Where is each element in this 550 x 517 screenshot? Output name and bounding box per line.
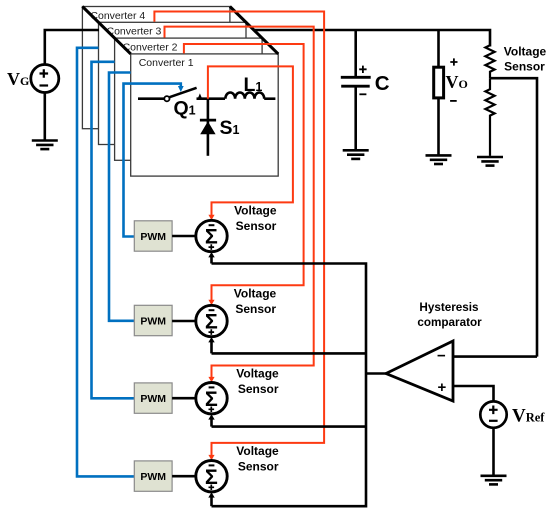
svg-text:Voltage: Voltage <box>234 286 277 300</box>
svg-text:Voltage: Voltage <box>504 45 547 59</box>
load VO wire top <box>437 30 440 67</box>
sense tap wire to comparator minus <box>490 78 537 356</box>
source VG <box>7 65 59 93</box>
wire PWM4 to summer4 <box>172 475 195 478</box>
feedback stub arrow summer 1 <box>210 255 213 264</box>
switch Q1 contact <box>164 96 169 101</box>
ground VRef <box>481 476 507 485</box>
ground divider <box>477 157 503 166</box>
svg-text:−: − <box>437 348 446 365</box>
red wire converter 2 to summer 2 <box>184 44 304 301</box>
PWM block 3 <box>134 383 172 413</box>
svg-text:Voltage: Voltage <box>236 367 279 381</box>
PWM block 2 <box>134 305 172 335</box>
svg-text:Converter 1: Converter 1 <box>139 57 194 69</box>
svg-text:Sensor: Sensor <box>236 219 277 233</box>
svg-text:+: + <box>438 379 447 396</box>
svg-text:PWM: PWM <box>140 471 166 483</box>
svg-text:PWM: PWM <box>140 231 166 243</box>
red wire converter 4 to summer 4 <box>154 12 324 457</box>
feedback stub arrow summer 4 <box>210 495 213 506</box>
svg-text:C: C <box>375 72 390 95</box>
converter box 1 <box>131 54 279 176</box>
red wire converter 1 to summer 1 <box>208 66 293 216</box>
PWM block 4 <box>134 461 172 491</box>
svg-text:Converter 3: Converter 3 <box>107 26 162 38</box>
switch arrow on wire <box>198 93 202 98</box>
wire switch to inductor <box>197 97 226 100</box>
stack diagonal left <box>82 7 130 54</box>
blue wire PWM2 to converter 2 <box>109 73 134 321</box>
converter box 3 <box>99 22 247 144</box>
hysteresis comparator U5 <box>386 341 453 401</box>
wire VG bottom <box>43 93 46 141</box>
wire main top bus right of boxes <box>254 30 490 47</box>
svg-text:Sensor: Sensor <box>238 460 279 474</box>
switch Q1 blade <box>170 88 197 97</box>
svg-text:PWM: PWM <box>140 393 166 405</box>
blue wire PWM3 to converter 3 <box>92 62 135 399</box>
capacitor wire bottom <box>354 88 357 151</box>
load wire bottom <box>437 98 440 155</box>
wire comparator minus input <box>453 355 537 358</box>
voltage sensor divider resistor R1 <box>485 45 494 78</box>
svg-text:Voltage: Voltage <box>236 444 279 458</box>
diode S1 <box>200 121 215 134</box>
svg-text:comparator: comparator <box>417 316 482 329</box>
svg-text:Hysteresis: Hysteresis <box>419 301 479 314</box>
source VRef <box>480 401 545 427</box>
svg-text:Sensor: Sensor <box>238 382 279 396</box>
wire VG top to boxes <box>45 30 99 65</box>
wire VRef to ground <box>492 428 495 476</box>
PWM block 1 <box>134 221 172 251</box>
summer U3 <box>196 383 227 414</box>
ground VO <box>426 155 452 164</box>
svg-text:Sensor: Sensor <box>235 302 276 316</box>
svg-text:PWM: PWM <box>140 316 166 328</box>
inductor L1 <box>225 93 264 99</box>
feedback branch summer 2 <box>212 352 367 355</box>
blue wire PWM1 to switch 1 <box>124 84 181 237</box>
wire PWM3 to summer3 <box>172 397 195 400</box>
converter box 2 <box>115 38 263 160</box>
wire comparator plus input to VRef <box>453 386 494 401</box>
red wire converter 3 to summer 3 <box>165 27 314 379</box>
voltage sensor divider resistor R2 <box>485 78 494 156</box>
converter box 4 <box>82 7 230 129</box>
summer U2 <box>196 305 227 336</box>
load VO <box>434 67 444 98</box>
feedback stub arrow summer 2 <box>210 340 213 353</box>
wire PWM1 to summer1 <box>172 235 195 238</box>
feedback stub arrow summer 3 <box>210 417 213 426</box>
svg-text:Sensor: Sensor <box>504 60 545 74</box>
blue wire PWM4 to converter 4 <box>77 48 134 477</box>
feedback branch summer 3 <box>212 425 367 428</box>
wire comparator output to bus <box>366 372 387 375</box>
summer U1 <box>196 220 227 251</box>
feedback bus from comparator <box>212 264 367 507</box>
ground capacitor <box>343 150 369 159</box>
capacitor C wire top <box>354 30 357 76</box>
wire PWM2 to summer2 <box>172 320 195 323</box>
svg-text:Converter 2: Converter 2 <box>123 41 178 53</box>
wire inductor right <box>264 97 275 100</box>
diode S1 stem <box>207 99 210 156</box>
summer U4 <box>196 461 227 492</box>
ground VG <box>32 141 58 150</box>
wire switch left (converter 1) <box>138 97 165 100</box>
svg-text:Voltage: Voltage <box>234 203 277 217</box>
capacitor C <box>341 76 371 79</box>
svg-text:Converter 4: Converter 4 <box>90 10 145 22</box>
stack diagonal right <box>230 7 278 54</box>
